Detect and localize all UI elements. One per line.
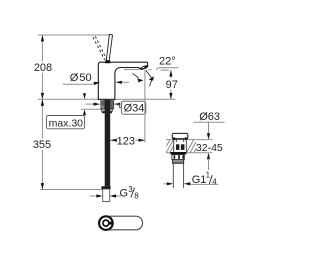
svg-text:Ø63: Ø63 <box>199 111 220 123</box>
svg-text:1: 1 <box>206 171 211 180</box>
svg-text:Ø34: Ø34 <box>124 103 145 115</box>
svg-text:355: 355 <box>33 139 51 151</box>
svg-text:G: G <box>120 187 129 199</box>
svg-text:G1: G1 <box>192 174 207 186</box>
svg-text:22°: 22° <box>159 55 176 67</box>
svg-text:97: 97 <box>166 79 178 91</box>
svg-text:max.30: max.30 <box>49 117 84 129</box>
svg-text:8: 8 <box>134 192 139 201</box>
svg-text:208: 208 <box>34 62 52 74</box>
svg-text:32-45: 32-45 <box>196 142 223 154</box>
svg-text:4: 4 <box>212 177 217 186</box>
svg-text:Ø50: Ø50 <box>70 72 92 84</box>
svg-text:123: 123 <box>117 135 135 147</box>
